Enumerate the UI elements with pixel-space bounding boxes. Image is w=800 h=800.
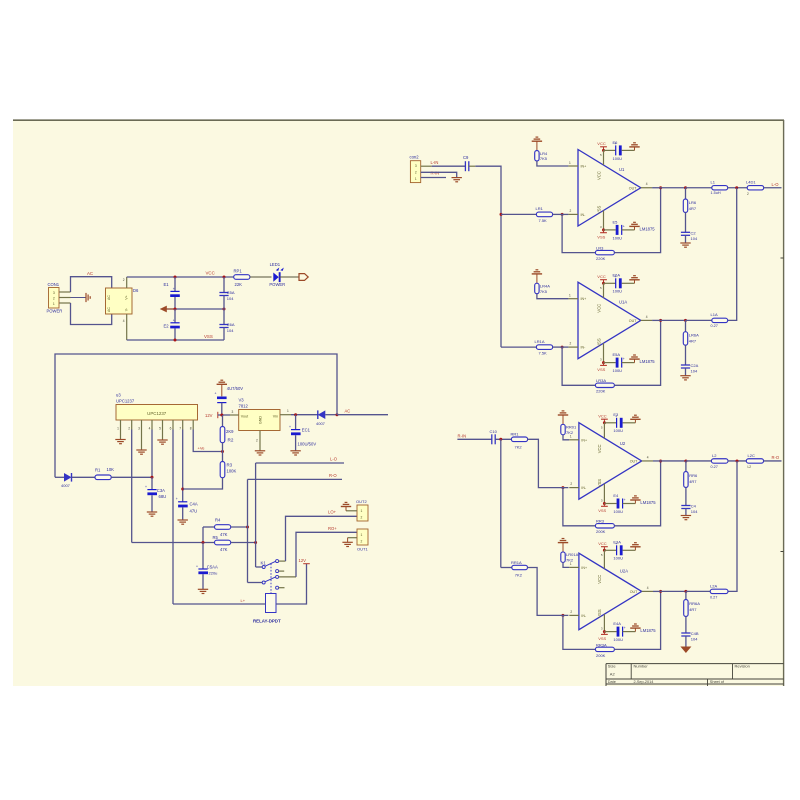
svg-text:UPC1237: UPC1237 — [116, 399, 135, 404]
wire R4 to R-O column — [231, 526, 248, 528]
svg-text:4: 4 — [647, 455, 649, 459]
wire LED1 to port — [279, 276, 299, 278]
svg-text:100U: 100U — [613, 428, 623, 433]
junction L2 L2C — [728, 460, 746, 462]
svg-text:1: 1 — [570, 562, 572, 566]
wire CON1 to bridge AC bottom — [71, 303, 112, 325]
svg-text:RO+: RO+ — [328, 526, 337, 531]
wire coil to 12V — [276, 564, 307, 604]
wire LR4 to IN+ — [537, 161, 569, 166]
svg-text:R3: R3 — [227, 463, 233, 468]
svg-text:L2: L2 — [712, 453, 717, 458]
svg-text:4R7: 4R7 — [689, 607, 697, 612]
svg-text:V+: V+ — [124, 295, 128, 300]
wire u3 pin2 to R5 — [131, 430, 133, 543]
earth ground C3A — [147, 511, 157, 513]
svg-text:+: + — [289, 425, 291, 429]
svg-text:Revision: Revision — [735, 664, 750, 669]
svg-text:4: 4 — [646, 182, 648, 186]
svg-text:L4D1: L4D1 — [746, 180, 756, 185]
svg-text:R4: R4 — [215, 517, 221, 522]
bridge pin 2 stub — [126, 277, 128, 288]
VCC pin stub U2A — [603, 550, 605, 568]
inductor L1 — [686, 187, 712, 189]
svg-text:4R7: 4R7 — [689, 479, 697, 484]
earth ground C2 — [680, 242, 690, 244]
pin2 stub U1 — [568, 213, 578, 215]
connector CON1 — [49, 288, 60, 309]
svg-text:4: 4 — [646, 315, 648, 319]
svg-text:VCC: VCC — [597, 444, 602, 453]
wire u3 pin7 to C4A — [182, 430, 184, 502]
wire R-O column — [247, 479, 249, 582]
svg-text:VSS: VSS — [597, 235, 605, 240]
svg-text:Date: Date — [608, 680, 616, 684]
svg-text:IN-: IN- — [581, 486, 587, 490]
svg-text:47K: 47K — [220, 547, 228, 552]
wire L-IN — [421, 165, 432, 167]
wire VCC rail — [127, 276, 234, 278]
svg-text:4007: 4007 — [316, 421, 326, 426]
svg-text:RR3: RR3 — [596, 519, 605, 524]
bias resistor LR4A 7K5 — [536, 274, 538, 283]
svg-text:R-O: R-O — [329, 473, 337, 478]
earth ground E4 — [634, 500, 636, 504]
relay coil K1 — [266, 594, 277, 613]
earth ground E3 — [634, 419, 636, 423]
svg-text:+: + — [623, 357, 625, 361]
wire RR1A to IN- U2A — [528, 568, 569, 616]
resistor LR6A 4R7 — [685, 320, 687, 331]
svg-text:1: 1 — [117, 427, 119, 431]
svg-text:A2: A2 — [610, 671, 616, 676]
capacitor C3A 68U — [151, 477, 153, 489]
resistor RR6A 4R7 — [685, 591, 687, 599]
wire U2A output join — [728, 461, 737, 591]
bridge pin 4 stub — [126, 314, 128, 340]
svg-text:4: 4 — [149, 427, 151, 431]
svg-text:100U: 100U — [613, 368, 623, 373]
svg-text:2: 2 — [570, 209, 572, 213]
resistor R2 2K9 — [222, 415, 224, 427]
svg-text:VCC: VCC — [596, 304, 601, 313]
svg-text:VCC: VCC — [597, 274, 606, 279]
earth ground C4 — [681, 515, 691, 517]
svg-text:C4: C4 — [691, 504, 697, 509]
svg-text:4: 4 — [647, 586, 649, 590]
resistor R5 47K — [132, 542, 215, 544]
wire R4 left down — [202, 527, 204, 543]
svg-text:12V: 12V — [299, 558, 307, 563]
svg-text:VSS: VSS — [598, 508, 606, 513]
wire R5 to L-O column — [231, 542, 256, 544]
V3 pin2 stub and ground — [259, 431, 261, 451]
bias resistor LR01A 7K2 — [562, 543, 564, 552]
svg-text:2: 2 — [570, 482, 572, 486]
svg-text:100U: 100U — [613, 637, 623, 642]
svg-text:VCC: VCC — [597, 575, 602, 584]
svg-text:100K: 100K — [227, 469, 237, 474]
svg-text:1: 1 — [53, 302, 55, 306]
svg-text:4: 4 — [123, 319, 125, 323]
svg-text:200K: 200K — [596, 529, 606, 534]
op-amp U2A LM1875 — [579, 553, 642, 630]
svg-text:RR1: RR1 — [511, 432, 520, 437]
svg-text:1: 1 — [415, 177, 417, 181]
bridge rectifier D6 — [106, 288, 133, 314]
svg-text:E3: E3 — [613, 412, 619, 417]
svg-text:VSS: VSS — [596, 205, 601, 214]
resistor LR6 4R7 — [685, 188, 687, 199]
input resistor LR1 7.5K — [501, 213, 536, 215]
svg-text:2: 2 — [128, 427, 130, 431]
svg-text:2: 2 — [361, 539, 363, 543]
decoupling cap E3A 100U — [604, 549, 616, 551]
earth ground E6A — [634, 280, 636, 284]
svg-text:C5A: C5A — [227, 290, 235, 295]
svg-text:2: 2 — [747, 192, 749, 196]
svg-text:4R7: 4R7 — [689, 206, 697, 211]
svg-text:VSS: VSS — [597, 479, 602, 488]
svg-text:RP1: RP1 — [234, 268, 243, 273]
svg-text:VSS: VSS — [596, 338, 601, 347]
svg-text:VCC: VCC — [206, 271, 215, 276]
svg-text:RR1A: RR1A — [511, 560, 522, 565]
svg-text:E3A: E3A — [613, 540, 621, 545]
capacitor EC1 100U/50V — [295, 415, 297, 430]
svg-text:7: 7 — [179, 427, 181, 431]
svg-text:IN+: IN+ — [581, 297, 587, 301]
inductor L2A — [686, 590, 710, 592]
svg-text:AC: AC — [107, 295, 111, 300]
svg-text:47U: 47U — [190, 509, 198, 514]
svg-text:RR6: RR6 — [689, 473, 698, 478]
svg-text:104: 104 — [227, 328, 234, 333]
decoupling cap E3 100U — [604, 422, 616, 424]
wire u3 pin8 +Ve — [193, 430, 222, 452]
decoupling cap E4A 100U — [604, 631, 616, 633]
svg-text:VCC: VCC — [598, 414, 607, 419]
junction — [174, 276, 177, 279]
svg-text:1: 1 — [569, 294, 571, 298]
wire V3 out — [291, 414, 318, 416]
V3 pin1 stub — [280, 414, 291, 416]
svg-text:C2A: C2A — [691, 363, 699, 368]
svg-text:OUT: OUT — [629, 186, 637, 190]
svg-text:100U/50V: 100U/50V — [298, 442, 317, 447]
earth ground C5AA — [198, 588, 208, 590]
junction pin7 R3 — [181, 488, 184, 491]
pin2 stub U2 — [569, 487, 579, 489]
svg-text:L-IN: L-IN — [431, 160, 439, 165]
V3 pin3 stub — [230, 414, 239, 416]
earth ground EC1 — [290, 450, 300, 452]
svg-text:LR6A: LR6A — [689, 333, 699, 338]
svg-text:AC: AC — [87, 271, 93, 276]
svg-text:+: + — [624, 498, 626, 502]
svg-text:1: 1 — [361, 509, 363, 513]
svg-text:+: + — [173, 287, 175, 291]
output pin 4 U1 — [641, 187, 652, 189]
svg-text:1: 1 — [570, 435, 572, 439]
svg-text:EC1: EC1 — [302, 428, 311, 433]
svg-text:R-IN: R-IN — [431, 171, 440, 176]
svg-text:4U7/50V: 4U7/50V — [227, 386, 244, 391]
svg-text:104: 104 — [691, 637, 698, 642]
svg-text:LED1: LED1 — [270, 262, 281, 267]
svg-text:C5AA: C5AA — [207, 564, 218, 569]
svg-text:104: 104 — [227, 296, 234, 301]
svg-text:R2: R2 — [228, 438, 234, 443]
svg-text:U2A: U2A — [620, 568, 628, 573]
svg-text:VSS: VSS — [598, 636, 606, 641]
svg-text:C4A: C4A — [190, 501, 198, 506]
svg-text:LM1875: LM1875 — [640, 500, 656, 505]
svg-text:2: 2 — [415, 171, 417, 175]
svg-text:u3: u3 — [116, 392, 121, 397]
capacitor C10 — [491, 434, 493, 444]
input resistor RR1A 7K2 — [501, 567, 512, 569]
svg-text:7K5: 7K5 — [540, 289, 548, 294]
VSS port U1 — [603, 210, 605, 229]
wire AC node — [325, 414, 337, 416]
svg-text:200K: 200K — [596, 653, 606, 658]
svg-text:VCC: VCC — [598, 541, 607, 546]
wire RR01 to IN+ — [563, 435, 569, 440]
svg-text:POWER: POWER — [269, 282, 285, 287]
earth ground C4A — [178, 519, 188, 521]
resistor R3 100K — [222, 452, 224, 462]
output network U1A — [661, 319, 686, 321]
svg-text:Sheet of: Sheet of — [710, 680, 725, 684]
connector con2 — [410, 161, 420, 183]
svg-text:0.27: 0.27 — [710, 595, 717, 599]
pin2 stub U2A — [569, 614, 579, 616]
output network U2 — [661, 460, 686, 462]
output pin 4 U2A — [642, 590, 653, 592]
earth ground u3 pin3 — [141, 430, 143, 451]
power port arrow — [299, 274, 308, 281]
wire RR1 to IN- U2 — [528, 439, 569, 487]
svg-text:+: + — [215, 391, 217, 395]
junction — [174, 308, 177, 311]
input resistor RR1 7K2 — [511, 437, 527, 442]
svg-text:68U: 68U — [159, 494, 167, 499]
svg-text:Size: Size — [608, 664, 617, 669]
svg-text:C6A: C6A — [227, 322, 235, 327]
svg-text:IN+: IN+ — [581, 165, 587, 169]
capacitor C4A 47U — [178, 501, 187, 503]
wire R3 to pin7 node — [183, 478, 223, 489]
svg-text:VCC: VCC — [596, 171, 601, 180]
svg-text:RR6A: RR6A — [689, 601, 700, 606]
wire L-O column — [255, 463, 257, 567]
earth ground at CON1 middle pin — [71, 297, 87, 299]
VSS port U2A — [603, 614, 605, 631]
svg-text:220K: 220K — [596, 256, 606, 261]
bias resistor RR01 7K2 — [562, 415, 564, 424]
svg-text:7.5K: 7.5K — [539, 351, 548, 356]
svg-text:R5: R5 — [213, 535, 219, 540]
svg-text:K1: K1 — [261, 561, 267, 566]
output pin 4 U2 — [642, 460, 653, 462]
svg-text:E6: E6 — [613, 140, 619, 145]
svg-text:VCC: VCC — [597, 141, 606, 146]
earth ground E6 — [634, 147, 636, 151]
capacitor C7 4U7/50V — [217, 397, 227, 400]
svg-text:E1: E1 — [164, 282, 170, 287]
svg-text:RR01: RR01 — [566, 425, 577, 430]
earth ground E3A — [634, 547, 636, 551]
svg-text:Number: Number — [634, 664, 649, 669]
feedback resistor LR3 220K — [562, 214, 595, 252]
svg-text:5: 5 — [159, 427, 161, 431]
feedback resistor LR3A 220K — [562, 347, 595, 385]
svg-text:LR3: LR3 — [596, 246, 604, 251]
svg-text:E6A: E6A — [613, 273, 621, 278]
svg-text:L2C: L2C — [748, 453, 755, 458]
svg-text:VSS: VSS — [204, 334, 213, 339]
earth ground u3 pin1 — [120, 430, 122, 440]
decoupling cap E5 100U — [604, 229, 616, 231]
svg-text:2: 2 — [570, 342, 572, 346]
svg-text:+: + — [173, 319, 175, 323]
capacitor E1 — [174, 277, 176, 291]
svg-text:IN+: IN+ — [581, 438, 587, 442]
op-amp U1 LM1875 — [578, 150, 641, 227]
regulator V3 7812 — [239, 410, 280, 431]
svg-text:L1: L1 — [711, 180, 716, 185]
feedback resistor RR3 200K — [563, 488, 596, 526]
wire U1A output join — [728, 188, 737, 321]
output pin 4 U1A — [641, 319, 652, 321]
wire R-IN column — [500, 439, 502, 567]
svg-text:Vin: Vin — [273, 414, 278, 418]
u3 pin stubs — [120, 420, 122, 430]
capacitor C5AA 220u — [202, 543, 204, 569]
pin2 stub U1A — [568, 346, 578, 348]
connector OUT1 — [357, 529, 368, 545]
sheet border top — [13, 119, 784, 121]
relay armature dashed link — [270, 564, 272, 594]
capacitor C9 — [464, 161, 466, 171]
svg-text:4R7: 4R7 — [689, 339, 697, 344]
junction — [174, 339, 177, 342]
resistor RP1 22K — [234, 275, 250, 280]
svg-text:OUT: OUT — [629, 319, 637, 323]
junction — [221, 450, 224, 453]
junction L1 L4D1 — [728, 187, 748, 189]
svg-text:100U: 100U — [613, 509, 623, 514]
capacitor C6A 104 — [223, 309, 225, 325]
svg-text:AC: AC — [345, 409, 351, 414]
svg-text:E4: E4 — [613, 493, 619, 498]
svg-text:E5A: E5A — [613, 352, 621, 357]
svg-text:IN+: IN+ — [581, 566, 587, 570]
wire loop to R1 — [55, 354, 337, 477]
svg-text:LR4A: LR4A — [540, 284, 550, 289]
wire to L-O port — [764, 187, 782, 189]
svg-text:C4B: C4B — [691, 631, 699, 636]
svg-text:L-O: L-O — [772, 182, 780, 187]
svg-text:1: 1 — [287, 409, 289, 413]
net stub R-O — [248, 478, 343, 480]
svg-text:LR1: LR1 — [536, 206, 544, 211]
capacitor E2 — [174, 309, 176, 323]
svg-text:3: 3 — [232, 410, 234, 414]
wire R-IN to C10 — [457, 438, 491, 440]
svg-text:V3: V3 — [239, 397, 245, 402]
decoupling cap E6A 100U — [604, 282, 616, 284]
svg-text:3: 3 — [138, 427, 140, 431]
earth ground E5 — [634, 226, 636, 230]
wire con2 pin2 to ground — [421, 172, 457, 177]
connector OUT2 — [357, 505, 368, 521]
svg-text:1: 1 — [569, 161, 571, 165]
svg-text:E2: E2 — [164, 324, 170, 329]
svg-text:104: 104 — [691, 236, 698, 241]
inductor L1A — [686, 319, 712, 321]
OUT2 ground — [346, 510, 357, 512]
svg-text:L2: L2 — [748, 465, 752, 469]
svg-text:U1: U1 — [619, 167, 625, 172]
input resistor LR1A 7.5K — [501, 346, 536, 348]
svg-text:Vout: Vout — [241, 414, 248, 418]
wire LR01A to IN+ — [563, 562, 569, 567]
power ground C4B — [680, 647, 691, 654]
svg-text:100U: 100U — [613, 556, 623, 561]
inductor L2 — [686, 460, 712, 462]
VSS port U1A — [603, 343, 605, 362]
svg-text:47K: 47K — [220, 532, 228, 537]
svg-text:22K: 22K — [235, 282, 243, 287]
svg-text:LR01A: LR01A — [566, 552, 579, 557]
svg-text:2: 2 — [361, 515, 363, 519]
svg-text:IN-: IN- — [581, 346, 587, 350]
resistor R4 47K — [203, 526, 215, 528]
svg-text:7812: 7812 — [239, 404, 249, 409]
svg-text:IN-: IN- — [581, 213, 587, 217]
op-amp U1A LM1875 — [578, 282, 641, 359]
svg-text:LO+: LO+ — [328, 510, 337, 515]
border tick marks — [781, 257, 784, 259]
decoupling cap E5A 100U — [604, 362, 616, 364]
svg-text:100U: 100U — [613, 156, 623, 161]
svg-text:100U: 100U — [613, 235, 623, 240]
svg-text:R-O: R-O — [772, 455, 780, 460]
earth ground C2A — [680, 375, 690, 377]
svg-text:LR6: LR6 — [689, 200, 697, 205]
earth ground E4A — [634, 628, 636, 632]
svg-text:L1A: L1A — [711, 312, 718, 317]
svg-text:0.27: 0.27 — [711, 465, 718, 469]
wire C10 junction — [495, 438, 511, 440]
svg-text:10K: 10K — [107, 467, 115, 472]
svg-text:POWER: POWER — [47, 309, 63, 314]
VCC pin stub U2 — [603, 423, 605, 438]
svg-text:8: 8 — [190, 427, 192, 431]
svg-text:C2: C2 — [691, 230, 697, 235]
VCC pin stub U1A — [603, 283, 605, 297]
svg-text:OUT: OUT — [630, 459, 638, 463]
svg-text:3: 3 — [415, 164, 417, 168]
svg-text:D6: D6 — [133, 288, 139, 293]
svg-text:2: 2 — [123, 278, 125, 282]
mid rail ground arrow — [166, 308, 224, 310]
svg-text:12V: 12V — [205, 413, 213, 418]
svg-text:RR3A: RR3A — [596, 642, 607, 647]
svg-text:7K2: 7K2 — [515, 573, 523, 578]
